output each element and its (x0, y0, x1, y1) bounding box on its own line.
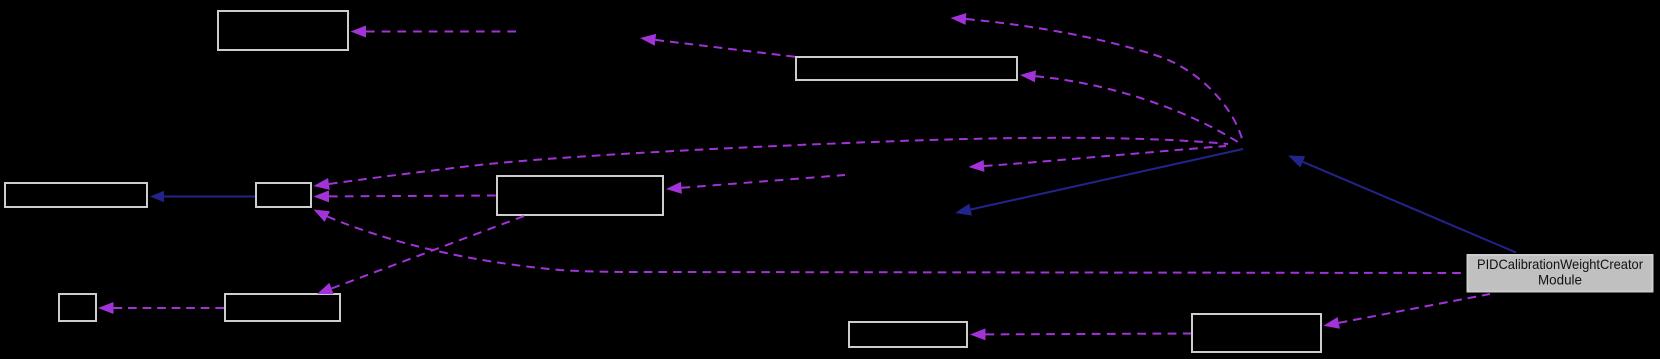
wire E6: dashed edge hub to floating mid arrow (969, 160, 985, 172)
wire E1: dashed edge into N1 (351, 26, 367, 38)
wire E10: dashed edge N7 to N6 (98, 302, 114, 314)
wire E7: long dashed edge module box to N4 lower arrow (314, 210, 331, 222)
svg-text:PIDCalibrationWeightCreator: PIDCalibrationWeightCreator (1477, 256, 1643, 272)
node box N2 (top-middle) (796, 57, 1017, 80)
wire E13: dashed edge module box to N9 (1324, 317, 1340, 329)
node box N6 (bottom tiny) (59, 294, 96, 321)
wire B1: solid blue edge N4 to N3 (150, 191, 164, 203)
wire E8: dashed edge N5 bottom to N7 arrow (317, 283, 334, 294)
node box N3 (mid far-left) (5, 183, 147, 207)
node box N4 (mid small) (256, 183, 311, 207)
node box N1 (top-left) (218, 11, 348, 50)
wire E4: dashed curve hub to N2 right (1020, 70, 1036, 82)
node box N8 (bottom-middle) (849, 322, 967, 347)
node box N7 (bottom-left) (225, 294, 340, 321)
wire E11: dashed edge floating to N5 right arrow (666, 182, 682, 194)
wire B3: solid blue edge module box to hub arrow (1288, 156, 1305, 168)
wire E9: dashed edge N5 left to N4 middle arrow (314, 190, 330, 202)
node box N5 (mid-center) (497, 176, 663, 215)
wire E12: dashed edge N9 to N8 (970, 328, 986, 340)
wire E2: dashed edge from N2 top-left (640, 34, 656, 46)
wire E5: long dashed curve hub to N4 upper arrow (314, 178, 330, 190)
wire B2: solid blue edge hub to floating arrow (955, 204, 972, 216)
wire E3: dashed curve hub to top arrow (951, 13, 967, 25)
svg-text:Module: Module (1538, 272, 1582, 288)
node PIDCalibrationWeightCreatorModule (selected, gray) (1468, 255, 1653, 292)
node box N9 (bottom-right) (1192, 314, 1321, 352)
